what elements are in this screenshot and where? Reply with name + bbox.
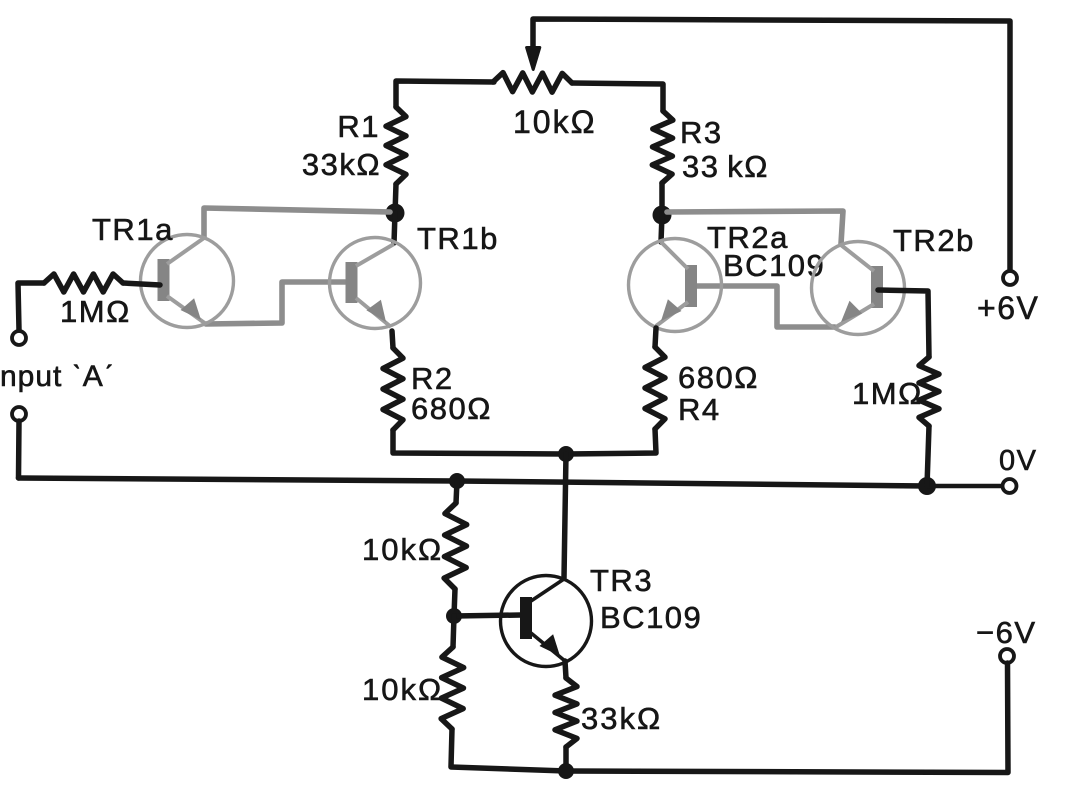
wire top +6V rail [533, 19, 1010, 270]
svg-text:R3: R3 [680, 115, 723, 150]
wire pot right end to R3 top [572, 83, 663, 111]
svg-text:nput ˋAˊ: nput ˋAˊ [0, 360, 115, 393]
svg-text:TR2b: TR2b [893, 223, 975, 258]
svg-text:10kΩ: 10kΩ [362, 532, 443, 567]
svg-text:10kΩ: 10kΩ [513, 104, 597, 140]
input terminal (top) [12, 331, 26, 345]
node A2: junction R3/TR2a/TR2b collectors [653, 206, 672, 225]
node A1: junction R1/TR1a/TR1b collectors [386, 204, 405, 223]
svg-text:R4: R4 [678, 392, 721, 427]
wire node A2 down to TR2a collector [661, 215, 662, 242]
svg-text:0V: 0V [999, 445, 1037, 477]
resistor R4 680 zigzag [645, 347, 665, 429]
wire TR3 emitter to 33k [565, 661, 566, 678]
input terminal A (bottom) [12, 407, 26, 421]
wire 0V rail to upper 10k [456, 481, 457, 503]
svg-text:10kΩ: 10kΩ [362, 672, 443, 707]
svg-text:1MΩ: 1MΩ [60, 294, 131, 329]
svg-text:33kΩ: 33kΩ [581, 701, 662, 736]
resistor 10k lower zigzag [453, 616, 454, 647]
svg-text:TR1a: TR1a [92, 212, 174, 247]
wiper arrow of potentiometer [527, 48, 540, 70]
transistor TR2b (mirrored) [812, 242, 905, 335]
node TR3 base bias [446, 608, 462, 624]
svg-text:33 kΩ: 33 kΩ [682, 149, 769, 184]
wire 33k to bottom rail [563, 747, 569, 771]
resistor 1M right zigzag [919, 357, 939, 426]
resistor 33k bottom zigzag [555, 678, 577, 747]
svg-text:680Ω: 680Ω [411, 391, 492, 426]
terminal -6V [1000, 649, 1014, 663]
wire node A1 down to TR1b collector [394, 213, 395, 243]
svg-text:BC109: BC109 [723, 248, 825, 283]
wire R2 bottom to tail node [393, 430, 563, 454]
wire TR2b collector coupling to node A2 (gray) [667, 211, 843, 244]
node: 0V rail to bias divider [449, 473, 465, 489]
wire TR1b emitter to R2 [392, 331, 393, 348]
resistor R2 680 zigzag [383, 348, 403, 430]
resistor 1M input zigzag [44, 274, 123, 292]
svg-text:−6V: −6V [976, 615, 1037, 650]
wire R4 bottom to tail node [566, 429, 656, 454]
potentiometer 10k zigzag [493, 73, 572, 93]
svg-text:R1: R1 [337, 109, 380, 144]
wire pot left end to R1 top [396, 81, 494, 107]
wire input A terminal down to 0V rail [16, 421, 22, 478]
node bottom rail junction [558, 763, 574, 779]
svg-text:1MΩ: 1MΩ [852, 376, 923, 411]
resistor 10k upper zigzag [444, 503, 467, 589]
wire 1M to TR1a base [123, 283, 160, 285]
svg-text:TR1b: TR1b [417, 221, 499, 256]
svg-text:BC109: BC109 [600, 600, 702, 635]
terminal 0V [1003, 479, 1017, 493]
wire R3 bottom to node [659, 183, 665, 215]
wire R1 bottom to node [395, 184, 396, 214]
svg-text:680Ω: 680Ω [678, 360, 759, 395]
node tail: junction R2/R4/TR3 collector [558, 446, 574, 462]
svg-text:+6V: +6V [977, 290, 1039, 326]
transistor TR1b [330, 238, 421, 329]
wire upper 10k to base node [454, 589, 455, 616]
wire lower 10k to bottom rail [451, 729, 566, 771]
wire -6V terminal down to bottom rail [566, 663, 1008, 773]
svg-text:33kΩ: 33kΩ [302, 147, 381, 182]
wire right 1M to 0V rail [927, 426, 929, 486]
wire 0V rail [19, 478, 929, 486]
transistor TR3 [501, 576, 592, 667]
wire TR2a base to TR2b emitter (gray) [697, 286, 835, 327]
wire tail node down to TR3 collector (crosses 0V rail) [564, 454, 566, 578]
transistor TR2a (mirrored) [629, 239, 722, 332]
terminal +6V [1003, 271, 1017, 285]
resistor R1 33k zigzag [386, 107, 406, 184]
transistor TR1a [141, 235, 234, 328]
wire TR2b base to right 1M resistor [878, 290, 929, 357]
resistor R3 33k zigzag [652, 111, 673, 183]
wire base node to TR3 base [454, 615, 521, 616]
wire 0V rail stub to terminal [928, 484, 1003, 489]
node: 0V rail to right 1M [918, 477, 936, 495]
wire input terminal to 1M resistor [18, 283, 44, 330]
svg-text:TR3: TR3 [590, 563, 653, 598]
wire TR1a emitter to TR1b base (gray) [206, 282, 345, 324]
wire TR2a emitter to R4 [655, 328, 656, 347]
wire TR1a collector coupling to node A1 (gray) [204, 208, 390, 237]
